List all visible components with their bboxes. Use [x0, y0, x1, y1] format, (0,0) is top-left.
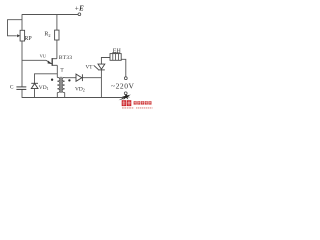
- wire: RP to capacitor C vertical: [21, 41, 23, 87]
- wire: transformer secondary bottom lead: [64, 93, 66, 98]
- resistor R2 body: [55, 30, 59, 40]
- transformer core lines: [59, 77, 61, 93]
- wire: R2 lower lead to UJT B2: [56, 40, 58, 59]
- wire: secondary top to diode VD2: [65, 77, 76, 79]
- thyristor VT triangle (apex down): [98, 64, 105, 69]
- wire: transformer primary bottom lead: [56, 93, 58, 98]
- wire: lower AC terminal stub: [125, 95, 127, 98]
- pulse transformer T primary winding: [57, 77, 60, 92]
- wire: capacitor C lower lead: [21, 89, 23, 98]
- thyristor VT cathode bar: [98, 69, 105, 71]
- thyristor VT gate lead: [94, 65, 99, 69]
- svg-text:VD1: VD1: [39, 85, 49, 91]
- wire: EH right lead down to upper AC terminal: [121, 59, 126, 77]
- terminal upper AC circle: [124, 77, 127, 80]
- wire: VD1 lower lead: [34, 89, 36, 98]
- UJT base bar: [51, 58, 53, 66]
- wire: thyristor cathode down to bottom rail: [100, 70, 102, 98]
- wire: UJT B1 down to transformer primary: [56, 65, 58, 77]
- pulse transformer T secondary winding: [62, 77, 65, 92]
- svg-text:~220V: ~220V: [111, 82, 135, 91]
- capacitor C plates: [16, 87, 26, 90]
- unijunction transistor VU BT33: emitter diagonal with arrow: [46, 60, 52, 64]
- terminal +E circle: [78, 13, 81, 16]
- wire: bottom common rail: [22, 97, 126, 99]
- wire: thyristor anode top corner to EH: [101, 58, 110, 65]
- UJT B1 lead: [52, 64, 57, 66]
- wire: top supply rail: [22, 14, 78, 16]
- UJT B2 lead: [52, 58, 57, 60]
- svg-text:VU: VU: [40, 53, 47, 58]
- svg-text:BT33: BT33: [59, 55, 73, 61]
- EH box internal lines: [113, 54, 119, 61]
- watermark bird logo: [122, 94, 131, 100]
- svg-text:VD2: VD2: [75, 86, 85, 92]
- diode VD2 (pointing right): [76, 74, 82, 81]
- svg-text:RP: RP: [24, 36, 32, 42]
- transformer primary polarity dot: [51, 79, 53, 81]
- transformer secondary polarity dot: [68, 79, 70, 81]
- svg-text:C: C: [10, 85, 14, 91]
- svg-text:R2: R2: [44, 31, 50, 37]
- svg-text:VT: VT: [86, 65, 94, 71]
- watermark character strokes (white slits in 维库): [122, 101, 130, 106]
- terminal lower AC circle: [124, 92, 127, 95]
- watermark bird left wing tip: [119, 97, 125, 100]
- wire: VD1 top horizontal to B1 node: [35, 74, 58, 84]
- watermark url row (faint red dashes): [122, 107, 153, 109]
- svg-text:T: T: [60, 68, 64, 74]
- diode VD1 (cathode bar up, triangle apex up): [31, 83, 38, 88]
- svg-text:EH: EH: [113, 48, 122, 54]
- wire: RP wiper feedback loop: [8, 20, 23, 36]
- wire: UJT emitter horizontal: [22, 59, 46, 61]
- wire: RP upper lead: [21, 14, 23, 30]
- wire: VD2 to thyristor cathode node: [82, 77, 101, 79]
- svg-text:+E: +E: [74, 4, 84, 12]
- potentiometer RP wiper arrowhead: [17, 34, 20, 37]
- watermark character 维 (red block glyph): [122, 100, 132, 106]
- wire: R2 upper lead: [56, 15, 58, 31]
- potentiometer RP body: [20, 30, 25, 41]
- watermark text 电子市场网 (red small blocks): [134, 101, 152, 104]
- heater EH box: [110, 54, 121, 61]
